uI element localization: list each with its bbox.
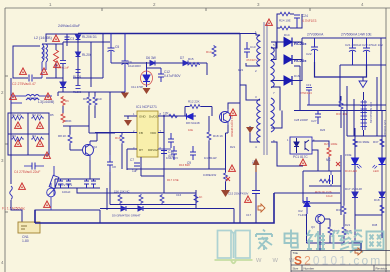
box resistor network bbox=[8, 113, 49, 155]
resistor R18 bbox=[207, 131, 211, 141]
sheet border right bbox=[385, 8, 387, 272]
svg-text:R18 1K: R18 1K bbox=[213, 134, 223, 138]
svg-text:C13: C13 bbox=[250, 45, 256, 49]
capacitor C14 bbox=[171, 146, 177, 160]
red triangle g bbox=[15, 122, 22, 128]
red triangle o bbox=[230, 109, 237, 115]
svg-text:1uF: 1uF bbox=[132, 169, 138, 173]
svg-text:15K 15K NC: 15K 15K NC bbox=[114, 190, 130, 194]
wire loop bottom to choke bbox=[33, 77, 42, 79]
sheet border left bbox=[4, 8, 6, 272]
wire aux caps row bbox=[55, 179, 100, 188]
wire fb bottom bbox=[307, 214, 363, 243]
wire q2 base bbox=[63, 126, 89, 150]
svg-text:D9 GRM4TDK GRM4T: D9 GRM4TDK GRM4T bbox=[112, 214, 141, 218]
capacitor C12 bbox=[158, 68, 164, 82]
wire d16 bbox=[271, 60, 302, 81]
resistor R31 bbox=[139, 194, 143, 204]
T1 secondary winding lower bbox=[271, 98, 274, 132]
resistor R8 bbox=[68, 134, 72, 144]
diode D17 bbox=[352, 192, 358, 198]
svg-text:R12 22K: R12 22K bbox=[188, 100, 200, 104]
svg-text:D8 N4148: D8 N4148 bbox=[186, 121, 200, 125]
svg-text:47NF1E3: 47NF1E3 bbox=[300, 91, 312, 95]
capacitor C7a bbox=[58, 179, 63, 188]
svg-text:R17 0.5E: R17 0.5E bbox=[167, 178, 179, 182]
resistor R2 bbox=[31, 116, 44, 120]
node blob bbox=[163, 115, 165, 117]
svg-text:Q3: Q3 bbox=[311, 225, 315, 229]
wire q2 col bbox=[89, 133, 115, 179]
wire drain bbox=[228, 34, 240, 224]
svg-text:R33 10E: R33 10E bbox=[336, 112, 348, 116]
svg-text:R9: R9 bbox=[83, 97, 87, 101]
diode D14 bbox=[284, 38, 292, 47]
capacitor C5 bulk bbox=[108, 34, 115, 64]
capacitor C21 bbox=[349, 38, 356, 65]
red triangle T1 top bbox=[266, 19, 273, 25]
TL431 bbox=[303, 197, 311, 214]
svg-text:100uF: 100uF bbox=[62, 190, 71, 194]
red triangle k bbox=[44, 152, 51, 158]
wire primary lower bottom bbox=[250, 126, 260, 142]
svg-text:RL206: RL206 bbox=[82, 53, 92, 57]
wire bus A bbox=[78, 33, 240, 35]
svg-text:D17 1N4148: D17 1N4148 bbox=[345, 187, 362, 191]
red triangle i bbox=[15, 140, 22, 146]
diode D16 bbox=[284, 76, 292, 85]
diode D15 bbox=[284, 55, 292, 64]
resistor R24a bbox=[280, 12, 290, 16]
left ticks bbox=[5, 75, 8, 77]
wire r4 bbox=[46, 44, 63, 78]
svg-text:1N4B11W: 1N4B11W bbox=[204, 156, 217, 160]
wire R33 bbox=[340, 96, 342, 128]
fuse F1 bbox=[10, 186, 13, 200]
svg-text:10uF400V: 10uF400V bbox=[128, 64, 141, 68]
transformer core bbox=[264, 22, 267, 155]
capacitor C2b bbox=[24, 163, 44, 170]
svg-text:0.47uF/50V: 0.47uF/50V bbox=[164, 74, 181, 78]
wire gnd U loop bbox=[315, 62, 367, 77]
svg-text:Dx/DS: Dx/DS bbox=[149, 115, 158, 119]
svg-text:D7: D7 bbox=[180, 56, 184, 60]
ground arrow A2 bbox=[143, 88, 151, 94]
resistor R37 bbox=[380, 138, 384, 148]
svg-text:12K: 12K bbox=[163, 112, 170, 116]
svg-text:TL431: TL431 bbox=[298, 213, 307, 217]
svg-text:C20 1000uF: C20 1000uF bbox=[383, 120, 387, 136]
capacitor C3b bbox=[60, 61, 66, 64]
diode D9 bbox=[121, 206, 126, 211]
wire IC right pin2 bbox=[158, 116, 164, 176]
svg-text:C27: C27 bbox=[311, 119, 317, 123]
svg-text:R24 10E: R24 10E bbox=[279, 19, 291, 23]
svg-text:S20101.com: S20101.com bbox=[294, 254, 382, 268]
wire x91 drop bbox=[90, 42, 92, 58]
red triangle e bbox=[10, 93, 17, 99]
svg-text:IC1 NCP1271: IC1 NCP1271 bbox=[136, 105, 157, 109]
svg-text:GND: GND bbox=[139, 115, 147, 119]
svg-text:C7: C7 bbox=[130, 158, 134, 162]
wire bus 110 bbox=[294, 110, 386, 112]
capacitor C8b bbox=[91, 179, 96, 188]
red triangle h bbox=[37, 122, 44, 128]
svg-text:R39: R39 bbox=[336, 208, 342, 212]
svg-text:C24: C24 bbox=[302, 14, 308, 18]
svg-text:Q2: Q2 bbox=[93, 145, 97, 149]
diode D7 bbox=[183, 61, 188, 66]
book base green bbox=[215, 260, 253, 263]
svg-text:DRV02: DRV02 bbox=[148, 148, 158, 152]
sheet border top bbox=[5, 7, 390, 9]
svg-text:RC20x: RC20x bbox=[294, 58, 307, 63]
diode D3 bbox=[60, 82, 66, 88]
opto LED bbox=[294, 138, 299, 153]
capacitor C27 bbox=[315, 111, 321, 125]
svg-text:R2 1M: R2 1M bbox=[32, 113, 41, 117]
resistor R13 bbox=[169, 114, 178, 118]
svg-text:1-80: 1-80 bbox=[22, 239, 29, 243]
svg-text:R16: R16 bbox=[115, 136, 121, 140]
wire fb mid bbox=[312, 150, 318, 171]
svg-text:1K: 1K bbox=[199, 195, 203, 199]
svg-text:R8 2K: R8 2K bbox=[58, 134, 66, 138]
wire x103 drop bbox=[102, 34, 104, 58]
wire col 382 bbox=[381, 111, 383, 239]
resistor R1 bbox=[11, 116, 24, 120]
resistor R28 bbox=[319, 179, 331, 183]
wire drop 300 bbox=[294, 66, 300, 111]
snubber wire row bbox=[111, 63, 207, 75]
svg-text:C28 2200P: C28 2200P bbox=[294, 118, 308, 122]
svg-text:R1 1M: R1 1M bbox=[12, 113, 21, 117]
capacitor C23 bbox=[363, 38, 370, 65]
svg-text:w w w: w w w bbox=[255, 255, 299, 264]
capacitor C10 bbox=[158, 133, 174, 149]
wire IC left pin1 bbox=[124, 116, 137, 119]
svg-text:1NF/1KV: 1NF/1KV bbox=[166, 156, 178, 160]
wire IC right pin1 bbox=[158, 115, 196, 117]
wire IC bottom pin bbox=[140, 157, 142, 176]
diode D2 bbox=[76, 52, 81, 57]
choke L3 bbox=[11, 95, 52, 104]
LED D19 bbox=[352, 158, 362, 169]
choke L2 bbox=[42, 44, 48, 78]
svg-text:Number: Number bbox=[304, 267, 315, 271]
varistor RV1 bbox=[49, 166, 59, 196]
mosfet Q1 bbox=[220, 109, 231, 125]
svg-text:C21 1000uF: C21 1000uF bbox=[345, 43, 362, 47]
red triangle a bbox=[53, 35, 60, 41]
svg-text:Size: Size bbox=[293, 267, 299, 271]
capacitor C3 bbox=[65, 37, 70, 40]
wire col 347 bbox=[346, 86, 348, 136]
wire lower rail bbox=[127, 169, 226, 176]
resistor R4b bbox=[31, 137, 44, 141]
svg-text:VDD: VDD bbox=[150, 131, 157, 135]
transistor Q2 bbox=[83, 141, 94, 160]
wire stub to table 2 bbox=[360, 243, 362, 251]
wire row 136 bbox=[347, 135, 386, 137]
ground arrow A3 bbox=[124, 120, 132, 126]
ground arrow A5 bbox=[221, 190, 230, 197]
svg-text:27V500mA 14W 10E: 27V500mA 14W 10E bbox=[341, 33, 372, 37]
diode D18 bbox=[379, 192, 385, 198]
T1 primary winding upper bbox=[257, 35, 260, 66]
watermark char xiu bbox=[332, 230, 349, 250]
resistor R31b bbox=[342, 226, 346, 236]
wire primary upper bottom bbox=[246, 63, 260, 66]
ground arrow A4 bbox=[246, 127, 254, 133]
wire choke top to bus bbox=[46, 34, 78, 42]
svg-text:C5: C5 bbox=[115, 45, 119, 49]
svg-text:LED: LED bbox=[373, 169, 380, 173]
wire col 344 bbox=[343, 111, 345, 197]
svg-text:R21: R21 bbox=[230, 145, 236, 149]
lamp NE1 bbox=[47, 183, 56, 210]
resistor R27 bbox=[328, 226, 332, 236]
wire vcc rail bbox=[58, 92, 125, 96]
svg-text:R37: R37 bbox=[373, 140, 379, 144]
diode D6 bbox=[150, 61, 155, 66]
wire R18 bbox=[208, 116, 210, 169]
capacitor C6 bulk bbox=[122, 34, 129, 93]
svg-text:C22: C22 bbox=[306, 52, 312, 56]
wire out rail 27V bbox=[302, 37, 386, 39]
wire left mains down bbox=[10, 78, 12, 184]
wire y193 bbox=[77, 188, 196, 193]
wire C3 stub bbox=[66, 34, 68, 46]
diode D8 bbox=[187, 114, 194, 120]
wire gate bbox=[185, 107, 212, 117]
svg-text:249Vac140uF: 249Vac140uF bbox=[58, 24, 81, 28]
wire R20 bottom bbox=[225, 182, 227, 190]
LED D20 bbox=[373, 158, 386, 169]
svg-text:D6 3W: D6 3W bbox=[146, 56, 156, 60]
resistor R32 bbox=[160, 194, 164, 204]
watermark char zi bbox=[348, 231, 363, 253]
svg-text:R4: R4 bbox=[32, 134, 36, 138]
capacitor C7b bbox=[161, 151, 167, 154]
T1 primary winding lower bbox=[257, 99, 260, 142]
wire opto to r23 bbox=[312, 141, 329, 171]
wire bottom bus bbox=[35, 193, 274, 223]
svg-text:10uF: 10uF bbox=[326, 194, 333, 198]
svg-text:PC1 817C: PC1 817C bbox=[293, 155, 308, 159]
snubber R14 C13 bbox=[212, 45, 216, 57]
red x mark 2 bbox=[336, 162, 340, 166]
red triangle fb bbox=[300, 159, 307, 165]
svg-text:C16: C16 bbox=[176, 193, 182, 197]
red triangle d bbox=[54, 61, 61, 67]
capacitor C13 bbox=[244, 42, 250, 58]
svg-text:472/1KV: 472/1KV bbox=[246, 58, 258, 62]
top ticks bbox=[101, 8, 103, 11]
pin text row1 bbox=[139, 115, 158, 153]
resistor R33 bbox=[339, 100, 343, 110]
wire fuse to plug bbox=[11, 200, 51, 222]
red triangle c bbox=[41, 68, 48, 74]
capacitor C15 bbox=[252, 191, 260, 194]
svg-text:C8: C8 bbox=[112, 165, 116, 169]
svg-text:L2 (1440B): L2 (1440B) bbox=[34, 36, 52, 40]
wire IC left pin2 bbox=[95, 132, 137, 134]
ground arrow A1 bbox=[121, 93, 129, 99]
capacitor C22 bbox=[311, 38, 318, 62]
box mid verticals bbox=[8, 113, 49, 155]
capacitor C8 bbox=[107, 155, 113, 172]
red triangle j bbox=[37, 140, 44, 146]
svg-text:RL206 D1: RL206 D1 bbox=[82, 35, 97, 39]
plug CN1 bbox=[18, 222, 40, 233]
orange arrow bbox=[258, 204, 265, 212]
hollow triangle bbox=[359, 81, 367, 88]
red x mark bbox=[226, 177, 230, 181]
svg-text:R16 B2K: R16 B2K bbox=[179, 163, 190, 167]
capacitor D4b bbox=[76, 86, 81, 89]
wire bus B bbox=[63, 41, 110, 43]
svg-text:R6: R6 bbox=[65, 99, 69, 103]
wire led col1 bbox=[354, 128, 356, 243]
watermark char dian bbox=[285, 230, 298, 248]
capacitor D4a bbox=[76, 70, 81, 73]
zener D5 bbox=[143, 68, 150, 87]
capacitor C2 bbox=[29, 75, 32, 82]
transistor Q3 bbox=[316, 215, 325, 224]
titleblock labels bbox=[293, 251, 388, 272]
wire input loop bbox=[13, 46, 40, 78]
wire col 377 bbox=[376, 77, 378, 136]
resistor R3 bbox=[11, 137, 24, 141]
resistor R7 red bbox=[61, 113, 65, 123]
resistor R16 bbox=[120, 134, 124, 144]
diode D10 bbox=[138, 206, 143, 211]
capacitor C7 bbox=[134, 163, 140, 166]
svg-text:Title: Title bbox=[293, 251, 299, 255]
resistor R23 red bbox=[327, 147, 331, 157]
wire sec return bbox=[256, 172, 340, 223]
resistor R9 bbox=[87, 96, 91, 106]
wire stub to table 1 bbox=[319, 243, 321, 251]
svg-text:FB: FB bbox=[139, 131, 143, 135]
svg-text:R10: R10 bbox=[96, 97, 102, 101]
svg-text:C17: C17 bbox=[246, 213, 252, 217]
wire sec diodes bbox=[271, 38, 302, 60]
svg-text:R38: R38 bbox=[372, 223, 378, 227]
wire bus 105 bbox=[307, 104, 386, 106]
resistor R12 bbox=[189, 105, 201, 109]
pin labels bbox=[255, 30, 275, 149]
book icon bbox=[218, 231, 251, 259]
watermark char wei bbox=[307, 230, 325, 249]
wire mid column down bbox=[106, 188, 108, 210]
svg-text:C11 470P: C11 470P bbox=[131, 85, 143, 89]
svg-text:R26: R26 bbox=[320, 128, 326, 132]
svg-text:C4 275Vac0.22uF: C4 275Vac0.22uF bbox=[14, 170, 40, 174]
wire r16 bbox=[121, 133, 123, 169]
svg-text:0.68E/1W: 0.68E/1W bbox=[203, 173, 216, 177]
wire col 354 bbox=[353, 99, 355, 136]
svg-text:C19: C19 bbox=[306, 83, 312, 87]
svg-text:150E: 150E bbox=[345, 153, 352, 157]
red triangle f bbox=[45, 93, 52, 99]
wire cluster bbox=[63, 58, 103, 92]
watermark char jia bbox=[256, 230, 272, 251]
wire r7 bbox=[62, 106, 64, 113]
svg-text:R3: R3 bbox=[12, 134, 16, 138]
svg-text:D19 LED: D19 LED bbox=[345, 169, 358, 173]
svg-text:27V300mA: 27V300mA bbox=[307, 33, 324, 37]
resistor R30 bbox=[118, 194, 122, 204]
wire primary top bbox=[240, 34, 260, 36]
resistor R34 bbox=[353, 138, 357, 148]
IC1 box bbox=[137, 111, 158, 157]
red triangle p bbox=[229, 165, 236, 171]
capacitor C19 bbox=[306, 88, 312, 106]
resistor R39 bbox=[342, 205, 346, 215]
capacitor C26m bbox=[330, 171, 333, 186]
titleblock top line bbox=[291, 251, 390, 272]
svg-text:C15 250uF430V: C15 250uF430V bbox=[228, 192, 249, 196]
svg-text:Revision: Revision bbox=[376, 267, 388, 271]
svg-text:L3(1440B): L3(1440B) bbox=[38, 100, 54, 104]
svg-text:R14: R14 bbox=[206, 50, 212, 54]
wire source bbox=[226, 125, 229, 172]
svg-text:R34 360E: R34 360E bbox=[356, 140, 369, 144]
wire leds join bbox=[344, 196, 382, 220]
svg-text:D21: D21 bbox=[345, 223, 351, 227]
capacitor C8a bbox=[84, 179, 89, 188]
wire d3 col bbox=[62, 42, 64, 60]
svg-text:D16: D16 bbox=[294, 74, 300, 78]
wires R9 R10 bbox=[89, 92, 95, 133]
capacitor C24 bbox=[294, 15, 300, 28]
plug pins bbox=[21, 226, 27, 229]
watermark char wang bbox=[367, 232, 384, 250]
red triangle b bbox=[20, 68, 27, 74]
svg-text:RT: RT bbox=[139, 148, 143, 152]
svg-text:Q1 FQPF9N50C: Q1 FQPF9N50C bbox=[230, 115, 234, 138]
resistor R15 bbox=[188, 63, 200, 67]
svg-text:C23 470uF 10V: C23 470uF 10V bbox=[362, 43, 383, 47]
wire y204 bbox=[51, 176, 234, 223]
red triangle l bbox=[19, 183, 26, 189]
wire 107 col bbox=[109, 92, 111, 188]
resistor R4 red bbox=[54, 50, 59, 62]
svg-text:R5: R5 bbox=[50, 113, 54, 117]
wire right rail down bbox=[380, 38, 382, 111]
resistor R6 red bbox=[61, 96, 65, 106]
svg-text:10E: 10E bbox=[188, 128, 193, 132]
capacitor C30 ladder bbox=[361, 100, 368, 130]
svg-text:R22: R22 bbox=[238, 68, 244, 72]
svg-text:R15: R15 bbox=[188, 57, 194, 61]
brown arrow up bbox=[253, 158, 260, 172]
highlight ellipse D5 bbox=[141, 71, 153, 85]
diode D1 bbox=[76, 35, 81, 40]
svg-text:4.7NF1E3: 4.7NF1E3 bbox=[302, 19, 317, 23]
resistor R33b bbox=[194, 194, 198, 204]
capacitor C7b bbox=[66, 179, 71, 188]
red triangle C15 bbox=[245, 196, 252, 202]
resistor R24b bbox=[280, 26, 290, 30]
opto transistor bbox=[305, 140, 309, 151]
wire C30 ends bbox=[363, 92, 365, 136]
resistor R40 bbox=[380, 204, 384, 214]
svg-text:R23 100E: R23 100E bbox=[324, 142, 337, 146]
wire choke to bus2 bbox=[42, 42, 63, 44]
